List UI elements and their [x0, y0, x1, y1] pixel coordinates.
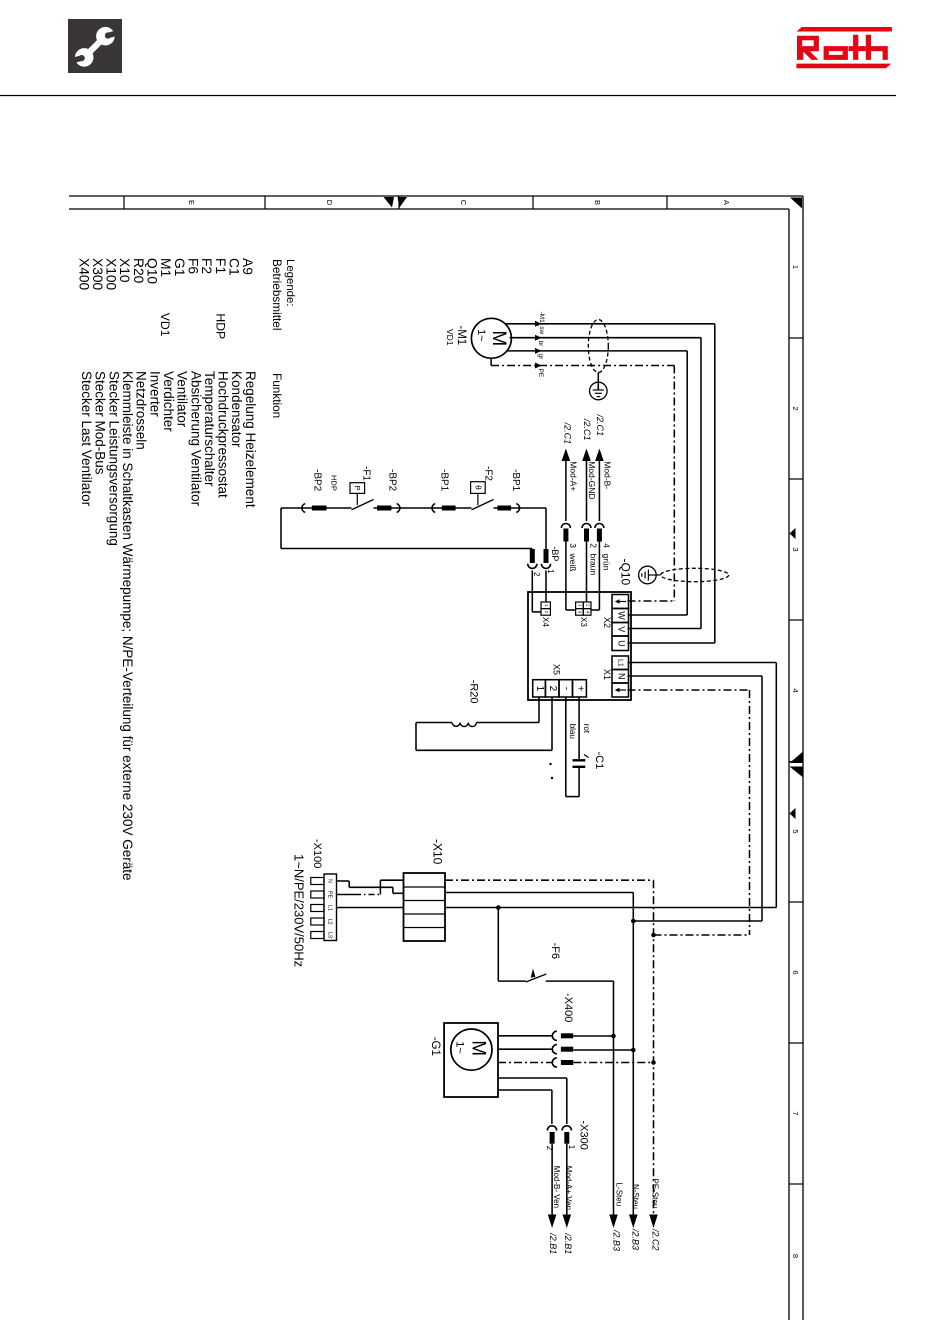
- svg-text:-X300: -X300: [577, 1121, 589, 1150]
- svg-text:/2.B3: /2.B3: [630, 1228, 640, 1250]
- connector -BP1 left half: [432, 504, 456, 513]
- legend row X100: [104, 258, 122, 546]
- svg-text:1: 1: [546, 569, 555, 574]
- wire X300.2 to Mod-B- Ven arrow: [551, 1144, 553, 1215]
- wire switch chain segment 2: [374, 507, 472, 509]
- connector -X100: [311, 874, 337, 941]
- signal arrow Mod-B- Ven to /2.B1: [548, 1166, 561, 1254]
- fold mark right 4/5 center: [790, 752, 803, 777]
- svg-text:1~: 1~: [475, 329, 487, 342]
- wire chain right end to -BP.1: [545, 508, 547, 549]
- svg-text:L-Steu: L-Steu: [614, 1183, 623, 1207]
- svg-text:4: 4: [791, 688, 800, 692]
- connector pin Mod-A+ (socket+pin): [561, 524, 570, 542]
- svg-text:PE-Steu: PE-Steu: [651, 1179, 660, 1209]
- svg-text:PE: PE: [537, 369, 544, 378]
- svg-text:gr: gr: [537, 354, 544, 361]
- signal arrow Mod-A+ to /2.C1: [562, 422, 573, 521]
- svg-text:Mod-GND: Mod-GND: [587, 461, 597, 499]
- svg-text:1: 1: [791, 265, 800, 269]
- choke R20 coil: [452, 723, 476, 727]
- svg-text:B: B: [593, 200, 602, 205]
- svg-text:-BP2: -BP2: [386, 469, 397, 492]
- wire M1 U phase (sw): [505, 324, 715, 643]
- svg-text:X4: X4: [541, 617, 550, 627]
- wire G1 Mod-A to X300.1: [498, 1078, 567, 1124]
- svg-text:HDP: HDP: [214, 313, 228, 339]
- header rule: [0, 95, 896, 97]
- svg-text:X400: X400: [76, 258, 91, 291]
- pin number 2 / colour braun: [589, 543, 599, 575]
- wire X5.- down: [565, 697, 567, 797]
- svg-text:HDP: HDP: [330, 475, 339, 491]
- connector -X300 pin 2: [547, 1126, 556, 1144]
- svg-text:Legende:: Legende:: [284, 259, 296, 307]
- signal arrow Mod-A+ Ven to /2.B1: [563, 1166, 573, 1254]
- svg-text:3: 3: [568, 543, 578, 548]
- header tools icon (white wrench on dark square): [68, 19, 122, 73]
- svg-text:N: N: [327, 879, 333, 883]
- svg-text:-X10: -X10: [431, 839, 445, 865]
- svg-text:1~N/PE/230V/50Hz: 1~N/PE/230V/50Hz: [292, 854, 307, 967]
- svg-text:2: 2: [589, 543, 599, 548]
- node L at X400.1: [611, 1034, 616, 1039]
- wire M1 PE (dash-dot): [491, 358, 674, 602]
- svg-text:+: +: [574, 685, 585, 691]
- svg-text:braun: braun: [589, 554, 599, 576]
- fold mark top D/C: [384, 197, 408, 208]
- svg-text:/2.B1: /2.B1: [548, 1232, 558, 1254]
- svg-text:Betriebsmittel: Betriebsmittel: [270, 259, 284, 330]
- wire X1.N right run: [628, 676, 763, 921]
- node PE junction: [651, 933, 656, 938]
- svg-text:-BP1: -BP1: [438, 469, 449, 492]
- pressure switch -F1: [350, 483, 374, 510]
- svg-text:-C1: -C1: [593, 752, 605, 770]
- signal arrow Mod-GND to /2.C1: [582, 418, 592, 521]
- svg-text:/2.C1: /2.C1: [595, 414, 605, 437]
- svg-text:D: D: [325, 200, 334, 206]
- svg-text:-M1: -M1: [455, 325, 467, 345]
- wire branch to X400.2: [573, 1049, 633, 1051]
- motor M1 circle: [471, 318, 511, 358]
- wire M1 W phase (gr): [507, 351, 687, 615]
- wire G1 to X400.1: [498, 1035, 553, 1037]
- pin number 4 / colour grün: [602, 543, 612, 570]
- cable shield ellipse at M1: [588, 320, 608, 373]
- legend row M1: [158, 258, 176, 432]
- node L1 branch to F6: [496, 905, 501, 910]
- wire Mod-GND pin2 to X3.2: [586, 542, 588, 603]
- connector -BP2 right half: [377, 504, 400, 513]
- svg-text:X1: X1: [602, 669, 612, 680]
- svg-text:L1: L1: [616, 659, 623, 667]
- wire X5.+ to C1: [578, 697, 580, 759]
- wire X1.L1 to X10.3: [445, 663, 776, 908]
- connector -X300 pin 1: [562, 1126, 571, 1144]
- svg-text:6: 6: [791, 970, 800, 974]
- breaker F6: [498, 969, 546, 983]
- wire X100.L1 to X10.3: [337, 907, 404, 909]
- node PE at X400.3: [651, 1060, 656, 1065]
- svg-text:L1: L1: [327, 905, 333, 911]
- svg-text:W: W: [616, 611, 626, 620]
- wire N junction down to X400.2 and N-Steu: [632, 921, 634, 1215]
- node N at X400.2: [631, 1048, 636, 1053]
- svg-text:X5: X5: [551, 664, 561, 675]
- svg-text:-BP1: -BP1: [510, 469, 521, 492]
- svg-text:Mod-B- Ven: Mod-B- Ven: [552, 1166, 561, 1208]
- svg-text:L3: L3: [327, 932, 333, 938]
- svg-text:-G1: -G1: [429, 1037, 441, 1056]
- svg-text:-R20: -R20: [468, 680, 480, 704]
- svg-text:/2.C2: /2.C2: [650, 1228, 660, 1251]
- svg-text:2: 2: [791, 406, 800, 410]
- fan motor G1 circle: [451, 1029, 492, 1070]
- capacitor C1: [573, 755, 589, 767]
- svg-text:Mod-B-: Mod-B-: [603, 461, 613, 489]
- svg-text:N-Steu: N-Steu: [631, 1184, 640, 1209]
- connector -BP1 right half: [497, 504, 519, 513]
- fan G1 box: [444, 1023, 498, 1097]
- legend row X10: [117, 258, 135, 881]
- connector pin Mod-GND (socket+pin): [582, 524, 591, 542]
- frame corner mark: [790, 198, 802, 209]
- wire X300.1 to Mod-A+ Ven arrow: [566, 1144, 568, 1215]
- svg-text:Mod-A+ Ven: Mod-A+ Ven: [564, 1166, 573, 1210]
- wire branch to X400.3 (dash-dot): [573, 1062, 653, 1064]
- svg-text:-X100: -X100: [311, 839, 323, 868]
- terminal strip X2 (PE W V U): [612, 595, 629, 651]
- legend row X400: [76, 258, 94, 507]
- svg-text:C: C: [459, 200, 468, 206]
- svg-text:1~: 1~: [454, 1041, 466, 1054]
- connector -X400 pin 2: [552, 1045, 573, 1054]
- wire C1 to minus join: [566, 768, 579, 797]
- svg-text:/2.C1: /2.C1: [582, 418, 592, 441]
- signal arrow PE-Steu to /2.C2: [649, 1179, 660, 1251]
- svg-text:-X400: -X400: [562, 993, 574, 1022]
- svg-text:1: 1: [534, 686, 545, 692]
- wire branch to X400.1: [573, 1035, 613, 1037]
- wire N junction to X10.2: [445, 893, 633, 922]
- svg-text:-F2: -F2: [483, 466, 494, 481]
- wire G1 to X400.3 (dash-dot): [498, 1062, 553, 1064]
- svg-text:N: N: [616, 673, 626, 680]
- svg-text:-F1: -F1: [360, 466, 371, 481]
- svg-text:Stecker Last Ventilator: Stecker Last Ventilator: [79, 371, 94, 507]
- svg-text:P: P: [353, 485, 362, 490]
- node N junction: [631, 919, 636, 924]
- svg-text:VD1: VD1: [158, 313, 172, 337]
- svg-text:5: 5: [791, 829, 800, 833]
- svg-text:L2: L2: [327, 918, 333, 924]
- svg-text:M: M: [488, 330, 509, 346]
- svg-text:U: U: [616, 640, 626, 647]
- legend row R20: [131, 258, 149, 450]
- svg-text:blau: blau: [568, 724, 577, 739]
- svg-text:3: 3: [791, 547, 800, 551]
- svg-text:/2.B1: /2.B1: [563, 1232, 573, 1254]
- pin labels 1 2 of -BP: [532, 569, 555, 577]
- connector -X400 pin 3: [552, 1058, 573, 1067]
- svg-text:4: 4: [602, 543, 612, 548]
- svg-text:-Q10: -Q10: [619, 559, 633, 586]
- frame column letters E D C B A: [187, 200, 731, 206]
- small fold tick right upper: [790, 528, 796, 539]
- small fold tick right lower: [790, 808, 796, 819]
- wire Mod-B- pin4 to X3.4: [591, 542, 599, 611]
- wire X100.N to X10.2: [337, 881, 404, 893]
- drawing frame border: [69, 196, 803, 1320]
- svg-text:VD1: VD1: [445, 329, 455, 346]
- connector -BP2 left half: [302, 504, 327, 513]
- wire X100.PE to X10.1 (dash-dot): [337, 880, 404, 894]
- wire tag arrows on M1 wires: [535, 321, 542, 369]
- signal arrow N-Steu to /2.B3: [629, 1184, 640, 1250]
- polarity dots: [549, 763, 553, 779]
- svg-text:θ: θ: [474, 485, 483, 490]
- svg-text:V: V: [616, 626, 626, 632]
- svg-text:PE: PE: [327, 891, 333, 899]
- svg-text:grün: grün: [602, 554, 612, 571]
- wire G1 Mod-B to X300.2: [498, 1090, 552, 1124]
- legend row F2: [199, 258, 217, 487]
- legend row G1: [172, 258, 190, 428]
- legend row F6: [185, 258, 203, 507]
- legend row A9: [240, 258, 258, 508]
- wire M1 V phase (br): [510, 338, 702, 629]
- wire switch chain segment 1: [281, 507, 352, 509]
- ground symbol at Q10: [639, 566, 661, 584]
- svg-text:-M1_sw: -M1_sw: [538, 312, 545, 335]
- svg-text:X3: X3: [579, 617, 588, 627]
- svg-text:-F6: -F6: [549, 943, 561, 960]
- inverter Q10 box: [528, 592, 631, 700]
- svg-text:Mod-A+: Mod-A+: [569, 461, 579, 491]
- wire L1 branch down to F6: [497, 908, 499, 982]
- connector -BP pin 1: [541, 549, 550, 568]
- signal arrow L-Steu to /2.B3: [609, 1183, 623, 1251]
- wire F6 out to L-Steu run: [546, 981, 614, 1214]
- terminal block X4 (1 2): [541, 602, 550, 615]
- wire X5.1 to choke: [476, 697, 539, 723]
- terminal block X3 (1 2 3 4): [576, 602, 591, 615]
- terminal block -X10: [404, 873, 446, 941]
- svg-text:X2: X2: [602, 617, 612, 628]
- legend row F1: [213, 258, 231, 498]
- wire switch chain segment 3: [494, 507, 547, 509]
- ground symbol at M1 shield: [590, 373, 608, 400]
- legend row X300: [90, 258, 108, 475]
- svg-text:weiß: weiß: [568, 553, 578, 572]
- wire Mod-A+ pin3 to X3.3: [566, 542, 576, 611]
- svg-text:7: 7: [791, 1111, 800, 1115]
- terminal strip X5 (1 2 - +): [533, 680, 587, 697]
- pin number 3 / colour weiß: [568, 543, 578, 571]
- cable shield ellipse at Q10: [661, 568, 729, 581]
- wire X1.PE dash-dot right run: [628, 690, 750, 935]
- wire choke loop to X5.2: [416, 697, 552, 750]
- svg-text:E: E: [187, 200, 196, 205]
- connector -X400 pin 1: [552, 1031, 573, 1040]
- svg-text:2: 2: [547, 686, 558, 692]
- wire -BP.2 to X4.2: [532, 571, 541, 612]
- Roth logo: [796, 27, 892, 68]
- legend row Q10: [145, 258, 163, 417]
- svg-text:rot: rot: [582, 724, 591, 734]
- legend row C1: [226, 258, 244, 448]
- connector pin Mod-B- (socket+pin): [595, 524, 604, 542]
- wire chain left loop: [281, 508, 532, 549]
- wire PE X10.1 down to PE-Steu (dash-dot): [445, 880, 654, 1214]
- frame row numbers 1-8: [791, 265, 800, 1258]
- terminal strip X1 (L1 N PE): [612, 656, 629, 697]
- svg-text:M: M: [468, 1040, 489, 1056]
- svg-text:Funktion: Funktion: [270, 373, 284, 418]
- svg-text:br: br: [537, 341, 544, 348]
- svg-text:8: 8: [791, 1254, 800, 1258]
- svg-text:/2.C1: /2.C1: [562, 422, 572, 445]
- pin labels X300: [545, 1145, 576, 1151]
- connector -BP pin 2: [528, 549, 537, 568]
- svg-text:A: A: [722, 200, 731, 205]
- svg-text:1: 1: [567, 1145, 576, 1150]
- temperature switch -F2: [471, 482, 494, 510]
- svg-text:-BP2: -BP2: [312, 469, 323, 492]
- signal arrow Mod-B- to /2.C1: [595, 414, 605, 522]
- svg-text:/2.B3: /2.B3: [611, 1229, 621, 1251]
- svg-text:2: 2: [532, 572, 541, 577]
- svg-text:-BP: -BP: [550, 546, 560, 561]
- wire G1 to X400.2: [498, 1048, 553, 1050]
- wire -BP.1 to X4.1: [545, 571, 547, 603]
- svg-text:-: -: [561, 687, 572, 690]
